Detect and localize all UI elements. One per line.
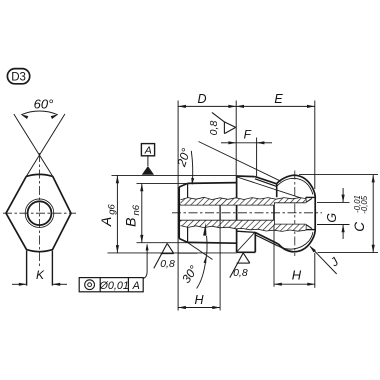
lower groove box <box>237 231 256 232</box>
svg-text:0,8: 0,8 <box>208 121 220 136</box>
svg-text:A: A <box>132 280 140 292</box>
ball vertical centerline <box>294 171 296 257</box>
30 degree leader with arrow to bore chamfer <box>203 223 206 236</box>
dimension G <box>317 201 350 203</box>
ball flat edge arcs <box>277 178 313 194</box>
local section hatching upper band <box>181 197 306 204</box>
20 degree construction line <box>199 142 282 182</box>
dimension E <box>314 101 316 190</box>
counterbore G <box>274 201 306 203</box>
collar bottom <box>237 251 256 253</box>
upper groove wall <box>276 184 278 197</box>
left view: diamond pin front view <box>6 174 71 251</box>
feature control frame leader <box>143 245 147 279</box>
dimension H left <box>219 221 221 311</box>
svg-text:B: B <box>122 218 138 227</box>
svg-text:H: H <box>292 268 302 283</box>
svg-text:H: H <box>194 293 204 307</box>
svg-text:-0,05: -0,05 <box>360 195 369 213</box>
svg-text:G: G <box>325 213 339 223</box>
axis centerline <box>172 212 322 214</box>
J radius leader <box>310 247 337 275</box>
lower taper double line <box>255 233 278 245</box>
dimension A g6 <box>112 174 237 176</box>
feature control frame: concentricity 0.01 to A <box>79 278 143 292</box>
svg-text:0,8: 0,8 <box>233 267 248 279</box>
60 degree dimension arc <box>21 111 57 115</box>
30 degree reference lines <box>178 252 197 254</box>
svg-text:D: D <box>197 92 206 106</box>
collar face line <box>236 176 238 252</box>
flat edge line on taper <box>238 177 305 199</box>
dimension B n6 <box>137 182 187 184</box>
svg-text:0,8: 0,8 <box>160 258 175 270</box>
roughness symbol 0,8 lower left <box>154 243 167 268</box>
svg-text:g6: g6 <box>107 204 118 215</box>
roughness symbol 0,8 top (rotated on extension line) <box>212 112 225 122</box>
collar top <box>237 175 255 178</box>
dimension K <box>12 283 27 285</box>
dimension C with tolerance <box>299 174 378 176</box>
ball end outline <box>277 175 316 252</box>
bore lines <box>180 204 274 206</box>
svg-text:D3: D3 <box>11 72 26 84</box>
local section hatching lower band <box>181 221 306 232</box>
svg-text:n6: n6 <box>131 204 142 215</box>
left view cross hole circles <box>28 201 52 225</box>
svg-text:C: C <box>352 222 367 232</box>
dimension H right <box>273 225 275 287</box>
bore step verticals <box>219 205 221 221</box>
datum feature symbol A <box>142 166 154 175</box>
left view centerlines <box>39 153 41 267</box>
dimension D <box>177 101 179 311</box>
svg-text:A: A <box>144 145 152 157</box>
svg-text:F: F <box>244 127 252 141</box>
left view shank projection lines <box>26 251 28 286</box>
20 degree leader arc <box>191 151 192 184</box>
upper taper double line <box>255 177 277 184</box>
svg-text:K: K <box>36 268 45 282</box>
svg-text:Ø0,01: Ø0,01 <box>98 280 128 292</box>
roughness symbol 0,8 under collar <box>230 253 243 278</box>
svg-text:E: E <box>274 92 283 106</box>
D3 variant badge <box>7 69 29 84</box>
60 degree construction lines <box>14 114 53 177</box>
dimension F <box>256 138 258 177</box>
side view: shank outline with chamfered end <box>179 183 236 244</box>
svg-text:A: A <box>98 217 114 227</box>
svg-text:60°: 60° <box>34 97 54 112</box>
